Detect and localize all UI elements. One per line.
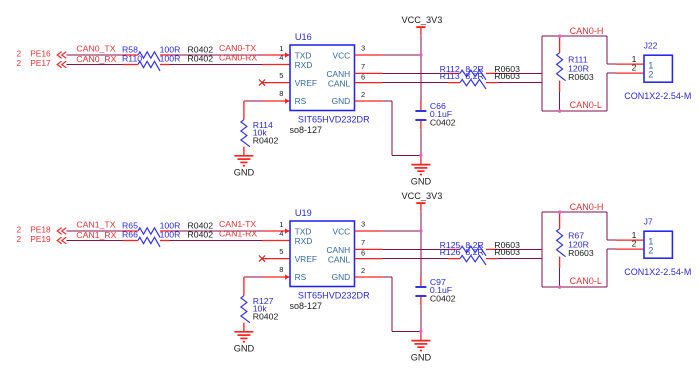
svg-text:CAN0_RX: CAN0_RX [76, 54, 116, 64]
svg-text:J22: J22 [644, 40, 658, 50]
svg-text:VCC_3V3: VCC_3V3 [401, 15, 442, 25]
svg-text:SIT65HVD232DR: SIT65HVD232DR [298, 291, 370, 301]
svg-text:6: 6 [361, 72, 365, 81]
svg-text:VCC: VCC [333, 50, 351, 60]
svg-text:CAN0-L: CAN0-L [570, 100, 602, 110]
svg-text:CAN1-TX: CAN1-TX [219, 219, 256, 229]
svg-text:U16: U16 [295, 32, 312, 42]
svg-text:5: 5 [279, 71, 283, 80]
svg-text:3: 3 [361, 44, 365, 53]
svg-text:GND: GND [411, 176, 432, 186]
svg-text:7: 7 [361, 238, 365, 247]
svg-text:CAN0-RX: CAN0-RX [219, 53, 257, 63]
svg-text:GND: GND [332, 96, 351, 106]
svg-text:R0603: R0603 [568, 248, 594, 258]
svg-text:R0603: R0603 [568, 72, 594, 82]
svg-text:TXD: TXD [295, 226, 312, 236]
svg-text:RXD: RXD [295, 236, 313, 246]
svg-text:R0402: R0402 [188, 230, 214, 240]
svg-text:PE18: PE18 [30, 225, 51, 235]
svg-text:CON1X2-2.54-M: CON1X2-2.54-M [624, 267, 691, 277]
svg-text:GND: GND [234, 168, 255, 178]
svg-text:VREF: VREF [295, 254, 317, 264]
svg-text:CAN0-L: CAN0-L [570, 276, 602, 286]
svg-text:6: 6 [361, 248, 365, 257]
svg-text:2: 2 [17, 225, 22, 235]
svg-text:RS: RS [295, 96, 307, 106]
svg-text:CANL: CANL [328, 78, 351, 88]
svg-text:PE17: PE17 [30, 58, 51, 68]
svg-text:8: 8 [279, 89, 283, 98]
svg-text:2: 2 [632, 238, 637, 248]
svg-text:8.2R: 8.2R [465, 71, 483, 81]
svg-text:R66: R66 [122, 230, 138, 240]
svg-text:C0402: C0402 [430, 117, 456, 127]
svg-text:R0402: R0402 [253, 312, 279, 322]
svg-text:R113: R113 [440, 71, 460, 81]
svg-text:GND: GND [411, 352, 432, 362]
svg-text:7: 7 [361, 62, 365, 71]
svg-text:100R: 100R [160, 230, 181, 240]
svg-text:RS: RS [295, 272, 307, 282]
svg-text:100R: 100R [160, 54, 181, 64]
svg-text:R0402: R0402 [188, 54, 214, 64]
svg-text:2: 2 [17, 234, 22, 244]
svg-text:4: 4 [279, 229, 283, 238]
svg-text:so8-127: so8-127 [290, 125, 323, 135]
svg-text:PE19: PE19 [30, 234, 51, 244]
svg-text:R110: R110 [122, 54, 142, 64]
svg-text:CANL: CANL [328, 254, 351, 264]
svg-text:R0603: R0603 [494, 247, 520, 257]
svg-text:TXD: TXD [295, 50, 312, 60]
svg-text:VCC_3V3: VCC_3V3 [401, 191, 442, 201]
svg-text:2: 2 [17, 58, 22, 68]
svg-text:R0402: R0402 [253, 136, 279, 146]
svg-text:2: 2 [648, 70, 653, 80]
svg-text:CAN1-RX: CAN1-RX [219, 229, 257, 239]
svg-text:2: 2 [648, 246, 653, 256]
svg-text:8.2R: 8.2R [465, 247, 483, 257]
svg-text:RXD: RXD [295, 60, 313, 70]
svg-text:U19: U19 [295, 208, 312, 218]
svg-text:CAN0_TX: CAN0_TX [76, 44, 115, 54]
svg-text:J7: J7 [644, 216, 653, 226]
svg-text:8: 8 [279, 265, 283, 274]
svg-text:GND: GND [332, 272, 351, 282]
svg-text:VREF: VREF [295, 78, 317, 88]
svg-text:2: 2 [361, 90, 365, 99]
svg-text:SIT65HVD232DR: SIT65HVD232DR [298, 115, 370, 125]
svg-text:PE16: PE16 [30, 49, 51, 59]
svg-text:2: 2 [361, 266, 365, 275]
svg-text:CAN0-H: CAN0-H [570, 26, 604, 36]
svg-text:1: 1 [279, 44, 283, 53]
svg-text:VCC: VCC [333, 226, 351, 236]
svg-text:3: 3 [361, 220, 365, 229]
svg-text:GND: GND [234, 344, 255, 354]
svg-text:CAN1_RX: CAN1_RX [76, 230, 116, 240]
svg-text:2: 2 [17, 49, 22, 59]
svg-text:4: 4 [279, 53, 283, 62]
svg-text:1: 1 [279, 220, 283, 229]
svg-text:R0603: R0603 [494, 71, 520, 81]
svg-text:CON1X2-2.54-M: CON1X2-2.54-M [624, 91, 691, 101]
svg-text:CAN0-H: CAN0-H [570, 202, 604, 212]
svg-text:CAN1_TX: CAN1_TX [76, 220, 115, 230]
svg-text:2: 2 [632, 62, 637, 72]
svg-text:R126: R126 [440, 247, 461, 257]
svg-text:C0402: C0402 [430, 293, 456, 303]
svg-text:CAN0-TX: CAN0-TX [219, 43, 256, 53]
svg-text:5: 5 [279, 247, 283, 256]
svg-text:so8-127: so8-127 [290, 301, 323, 311]
